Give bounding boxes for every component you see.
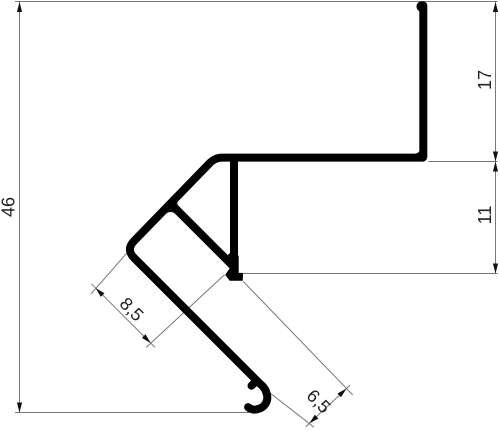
svg-text:17: 17 — [475, 70, 495, 90]
svg-text:11: 11 — [475, 206, 495, 225]
svg-text:46: 46 — [0, 197, 19, 217]
